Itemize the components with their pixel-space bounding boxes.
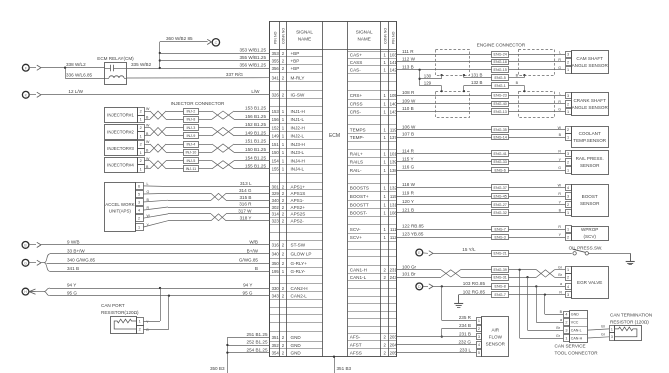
svg-text:318 Y: 318 Y bbox=[240, 215, 252, 220]
svg-text:GND: GND bbox=[291, 335, 302, 340]
svg-text:SIGNAL: SIGNAL bbox=[356, 30, 373, 35]
svg-text:ENG-45: ENG-45 bbox=[494, 194, 507, 198]
svg-text:355: 355 bbox=[272, 58, 280, 63]
svg-text:R: R bbox=[558, 150, 561, 154]
svg-text:INJ-10: INJ-10 bbox=[185, 151, 196, 155]
svg-text:W/B: W/B bbox=[249, 240, 258, 245]
svg-text:ENG-8: ENG-8 bbox=[495, 285, 506, 289]
svg-text:B: B bbox=[255, 266, 258, 271]
svg-text:1: 1 bbox=[565, 336, 567, 340]
svg-text:302: 302 bbox=[272, 205, 280, 210]
svg-text:ENG-35: ENG-35 bbox=[494, 128, 507, 132]
svg-text:CAN-H: CAN-H bbox=[571, 336, 583, 340]
svg-text:129: 129 bbox=[424, 81, 432, 86]
svg-text:112: 112 bbox=[390, 235, 397, 240]
svg-text:2: 2 bbox=[140, 143, 142, 147]
svg-text:2: 2 bbox=[567, 60, 569, 64]
svg-text:354: 354 bbox=[272, 350, 280, 355]
svg-text:RESISTOR(120Ω): RESISTOR(120Ω) bbox=[101, 310, 139, 315]
svg-text:ECM RELAY(CM): ECM RELAY(CM) bbox=[97, 56, 134, 61]
svg-text:COOLANT: COOLANT bbox=[579, 131, 601, 136]
svg-text:CRSS: CRSS bbox=[350, 102, 363, 107]
svg-text:ENG-7: ENG-7 bbox=[495, 293, 506, 297]
svg-text:RAIL PRESS.: RAIL PRESS. bbox=[576, 156, 604, 161]
svg-text:G: G bbox=[147, 190, 150, 194]
svg-text:GND: GND bbox=[571, 313, 579, 317]
svg-text:155: 155 bbox=[272, 167, 280, 172]
svg-text:BOOST: BOOST bbox=[582, 194, 598, 199]
svg-text:CAN1-L: CAN1-L bbox=[350, 275, 367, 280]
svg-text:+BP: +BP bbox=[291, 66, 300, 71]
svg-text:115: 115 bbox=[390, 194, 397, 199]
svg-text:1: 1 bbox=[138, 226, 140, 230]
svg-text:+BP: +BP bbox=[291, 58, 300, 63]
svg-text:INJECTOR#2: INJECTOR#2 bbox=[107, 129, 134, 134]
svg-text:ENG-6: ENG-6 bbox=[495, 168, 506, 172]
svg-text:W: W bbox=[146, 140, 150, 144]
svg-text:2: 2 bbox=[140, 110, 142, 114]
svg-text:INJECTOR#1: INJECTOR#1 bbox=[107, 113, 134, 118]
svg-text:APS1S: APS1S bbox=[291, 191, 306, 196]
svg-text:3: 3 bbox=[565, 329, 567, 333]
svg-text:R: R bbox=[558, 192, 561, 196]
svg-text:ACCEL WORK: ACCEL WORK bbox=[105, 202, 134, 207]
svg-text:CAN1-H: CAN1-H bbox=[350, 268, 367, 273]
svg-text:156: 156 bbox=[272, 117, 280, 122]
svg-text:156 B1.25: 156 B1.25 bbox=[245, 114, 266, 119]
svg-text:130: 130 bbox=[424, 74, 432, 79]
svg-text:INJECTOR CONNECTOR: INJECTOR CONNECTOR bbox=[171, 101, 225, 106]
svg-text:316 R: 316 R bbox=[239, 202, 252, 207]
svg-text:RAIL+: RAIL+ bbox=[350, 151, 363, 156]
svg-text:INJ3-H: INJ3-H bbox=[291, 142, 305, 147]
svg-text:231 B: 231 B bbox=[459, 331, 471, 336]
svg-text:149 B1.25: 149 B1.25 bbox=[245, 131, 266, 136]
svg-text:W: W bbox=[558, 184, 562, 188]
svg-text:153: 153 bbox=[272, 109, 280, 114]
svg-text:SCV+: SCV+ bbox=[350, 235, 362, 240]
svg-text:G: G bbox=[558, 108, 561, 112]
svg-text:2: 2 bbox=[139, 327, 141, 331]
svg-text:1: 1 bbox=[567, 110, 569, 114]
svg-text:BOOST+: BOOST+ bbox=[350, 194, 369, 199]
svg-text:2: 2 bbox=[565, 321, 567, 325]
svg-text:SCV-: SCV- bbox=[350, 227, 361, 232]
svg-text:341: 341 bbox=[272, 75, 280, 80]
svg-text:4: 4 bbox=[567, 186, 569, 190]
svg-text:2: 2 bbox=[140, 159, 142, 163]
svg-text:AFS-: AFS- bbox=[350, 334, 361, 339]
svg-text:4: 4 bbox=[565, 313, 567, 317]
svg-text:ANGLE SENSOR: ANGLE SENSOR bbox=[572, 105, 609, 110]
svg-text:95 G: 95 G bbox=[243, 290, 253, 295]
svg-text:M-RLY: M-RLY bbox=[291, 75, 305, 80]
svg-text:1: 1 bbox=[567, 68, 569, 72]
svg-text:139: 139 bbox=[390, 160, 398, 165]
svg-text:BOOST-: BOOST- bbox=[350, 211, 368, 216]
svg-text:1: 1 bbox=[139, 319, 141, 323]
svg-text:SENSOR: SENSOR bbox=[580, 163, 600, 168]
svg-text:101: 101 bbox=[390, 151, 398, 156]
svg-text:SENSOR: SENSOR bbox=[486, 342, 506, 347]
svg-text:CASS: CASS bbox=[350, 60, 363, 65]
svg-text:ENG-13: ENG-13 bbox=[494, 110, 507, 114]
svg-text:326: 326 bbox=[272, 92, 280, 97]
svg-text:115 Y: 115 Y bbox=[402, 157, 414, 162]
svg-text:ENG-3: ENG-3 bbox=[495, 235, 506, 239]
svg-text:RAILS: RAILS bbox=[350, 160, 363, 165]
svg-text:ENG-31: ENG-31 bbox=[494, 275, 507, 279]
svg-text:195: 195 bbox=[272, 269, 280, 274]
svg-text:ENG-41: ENG-41 bbox=[494, 152, 507, 156]
svg-text:254 B1.25: 254 B1.25 bbox=[247, 347, 268, 352]
svg-text:INJ-5: INJ-5 bbox=[186, 159, 195, 163]
svg-text:151: 151 bbox=[272, 142, 280, 147]
svg-text:W: W bbox=[147, 214, 151, 218]
svg-text:CRS-: CRS- bbox=[350, 109, 362, 114]
svg-text:INJECTOR#3: INJECTOR#3 bbox=[107, 146, 134, 151]
svg-text:CONN NO: CONN NO bbox=[383, 28, 387, 44]
svg-text:138: 138 bbox=[390, 168, 398, 173]
svg-text:114 R: 114 R bbox=[402, 148, 415, 153]
svg-text:251 B1.25: 251 B1.25 bbox=[247, 332, 268, 337]
svg-text:314 G: 314 G bbox=[239, 188, 252, 193]
svg-text:316: 316 bbox=[272, 243, 280, 248]
svg-text:143: 143 bbox=[390, 109, 398, 114]
svg-text:94 Y: 94 Y bbox=[67, 283, 76, 288]
svg-text:123 YB.85: 123 YB.85 bbox=[402, 232, 424, 237]
svg-text:INJ-11: INJ-11 bbox=[186, 167, 197, 171]
svg-text:235 R: 235 R bbox=[459, 315, 472, 320]
svg-text:WPROP: WPROP bbox=[581, 227, 598, 232]
svg-text:142: 142 bbox=[390, 68, 398, 73]
svg-text:W: W bbox=[146, 124, 150, 128]
svg-text:RAIL-: RAIL- bbox=[350, 168, 362, 173]
svg-text:UNIT(APS): UNIT(APS) bbox=[109, 209, 131, 214]
svg-text:a: a bbox=[560, 318, 562, 322]
svg-text:1: 1 bbox=[611, 327, 613, 331]
svg-text:ENG-1: ENG-1 bbox=[495, 84, 506, 88]
svg-text:119: 119 bbox=[390, 128, 397, 133]
svg-text:INJ-3: INJ-3 bbox=[186, 126, 195, 130]
svg-text:338 W/L2: 338 W/L2 bbox=[66, 62, 86, 67]
svg-text:109 W: 109 W bbox=[402, 99, 416, 104]
svg-text:CAS-: CAS- bbox=[350, 68, 361, 73]
svg-text:APS2-: APS2- bbox=[291, 219, 305, 224]
svg-text:TEMPS: TEMPS bbox=[350, 128, 366, 133]
svg-text:1: 1 bbox=[567, 211, 569, 215]
svg-text:131: 131 bbox=[390, 202, 398, 207]
svg-text:ENG-21: ENG-21 bbox=[494, 252, 507, 256]
svg-text:INJ2-H: INJ2-H bbox=[291, 125, 305, 130]
svg-text:95 G: 95 G bbox=[67, 290, 77, 295]
svg-text:B+/W: B+/W bbox=[247, 249, 259, 254]
svg-text:132: 132 bbox=[390, 185, 398, 190]
svg-text:140: 140 bbox=[390, 102, 398, 107]
svg-text:107 B: 107 B bbox=[402, 132, 414, 137]
svg-text:122 RB.85: 122 RB.85 bbox=[402, 224, 424, 229]
svg-text:152: 152 bbox=[272, 125, 280, 130]
svg-text:105: 105 bbox=[390, 93, 398, 98]
svg-text:BOOSTS: BOOSTS bbox=[350, 185, 369, 190]
svg-text:352: 352 bbox=[272, 343, 280, 348]
svg-text:ENG-14: ENG-14 bbox=[494, 135, 507, 139]
svg-text:NAME: NAME bbox=[298, 37, 311, 42]
svg-text:108: 108 bbox=[390, 211, 398, 216]
svg-text:243: 243 bbox=[390, 275, 398, 280]
svg-text:343: 343 bbox=[272, 294, 280, 299]
svg-text:351 B3: 351 B3 bbox=[337, 366, 352, 371]
svg-text:3: 3 bbox=[138, 201, 140, 205]
svg-text:150 B1.25: 150 B1.25 bbox=[245, 147, 266, 152]
svg-text:323: 323 bbox=[272, 219, 280, 224]
svg-text:INJ2-L: INJ2-L bbox=[291, 134, 305, 139]
svg-text:PIN NO: PIN NO bbox=[273, 31, 277, 44]
svg-text:TEMP.SENSOR: TEMP.SENSOR bbox=[573, 138, 607, 143]
svg-text:(SCV): (SCV) bbox=[583, 234, 596, 239]
svg-text:353: 353 bbox=[272, 51, 280, 56]
svg-text:G: G bbox=[558, 66, 561, 70]
svg-text:131 B: 131 B bbox=[471, 72, 483, 77]
svg-text:353 W/B1.25: 353 W/B1.25 bbox=[239, 47, 266, 52]
svg-text:33 B+/W: 33 B+/W bbox=[67, 249, 85, 254]
svg-text:2: 2 bbox=[567, 160, 569, 164]
svg-text:231: 231 bbox=[390, 268, 398, 273]
svg-text:2: 2 bbox=[478, 327, 480, 331]
svg-text:336 W/L6.85: 336 W/L6.85 bbox=[66, 73, 92, 78]
svg-text:2: 2 bbox=[567, 203, 569, 207]
svg-text:CAN PORT: CAN PORT bbox=[101, 303, 125, 308]
svg-text:INJ4-L: INJ4-L bbox=[291, 167, 305, 172]
svg-text:1: 1 bbox=[567, 135, 569, 139]
svg-text:350: 350 bbox=[272, 261, 280, 266]
svg-text:120 Y: 120 Y bbox=[402, 199, 414, 204]
svg-text:APS2+: APS2+ bbox=[291, 205, 306, 210]
svg-text:ECM: ECM bbox=[329, 133, 340, 139]
svg-text:5: 5 bbox=[478, 351, 480, 355]
svg-text:3: 3 bbox=[478, 335, 480, 339]
svg-text:118 W: 118 W bbox=[402, 182, 416, 187]
svg-text:INJ1-H: INJ1-H bbox=[291, 109, 305, 114]
svg-text:SENSOR: SENSOR bbox=[580, 201, 600, 206]
svg-text:INJ-9: INJ-9 bbox=[186, 134, 195, 138]
svg-text:TOOL CONNECTOR: TOOL CONNECTOR bbox=[555, 351, 599, 356]
svg-text:15 Y/L: 15 Y/L bbox=[462, 247, 476, 252]
svg-text:L: L bbox=[559, 50, 561, 54]
svg-text:232 G: 232 G bbox=[458, 340, 471, 345]
svg-text:340: 340 bbox=[272, 198, 280, 203]
svg-text:234 B: 234 B bbox=[459, 323, 471, 328]
svg-text:ENG-18: ENG-18 bbox=[494, 60, 507, 64]
svg-text:CAM SHAFT: CAM SHAFT bbox=[576, 56, 603, 61]
svg-text:150: 150 bbox=[272, 150, 280, 155]
svg-text:119 R: 119 R bbox=[402, 191, 415, 196]
svg-text:2: 2 bbox=[567, 128, 569, 132]
svg-text:CONN NO: CONN NO bbox=[282, 28, 286, 44]
svg-text:1: 1 bbox=[140, 134, 142, 138]
svg-text:149: 149 bbox=[272, 134, 280, 139]
svg-text:L: L bbox=[559, 91, 561, 95]
svg-text:INJ-4: INJ-4 bbox=[186, 142, 195, 146]
svg-text:100 Gr: 100 Gr bbox=[402, 265, 417, 270]
svg-text:340: 340 bbox=[272, 252, 280, 257]
svg-text:G/WG.85: G/WG.85 bbox=[239, 258, 259, 263]
svg-text:106 W: 106 W bbox=[402, 125, 416, 130]
svg-text:R: R bbox=[559, 290, 562, 294]
svg-text:R: R bbox=[558, 58, 561, 62]
svg-text:356: 356 bbox=[272, 66, 280, 71]
svg-text:IG-SW: IG-SW bbox=[291, 92, 305, 97]
svg-text:1: 1 bbox=[140, 167, 142, 171]
svg-text:111: 111 bbox=[390, 227, 397, 232]
svg-text:NAME: NAME bbox=[358, 37, 371, 42]
svg-text:ENG-40: ENG-40 bbox=[494, 102, 507, 106]
svg-text:340 G/WG.85: 340 G/WG.85 bbox=[67, 258, 96, 263]
svg-text:GND: GND bbox=[291, 350, 302, 355]
svg-text:INJECTOR#4: INJECTOR#4 bbox=[107, 162, 134, 167]
svg-text:ENG-32: ENG-32 bbox=[494, 211, 507, 215]
svg-text:AFST: AFST bbox=[350, 343, 362, 348]
svg-text:INJ3-L: INJ3-L bbox=[291, 150, 305, 155]
svg-text:301: 301 bbox=[272, 184, 280, 189]
svg-text:3: 3 bbox=[567, 293, 569, 297]
svg-text:ENG-7: ENG-7 bbox=[495, 227, 506, 231]
svg-text:4: 4 bbox=[138, 209, 140, 213]
svg-text:ENG-37: ENG-37 bbox=[494, 186, 507, 190]
svg-text:252 B1.25: 252 B1.25 bbox=[247, 340, 268, 345]
svg-text:2: 2 bbox=[567, 102, 569, 106]
svg-text:132 B: 132 B bbox=[471, 80, 483, 85]
svg-text:INJ1-L: INJ1-L bbox=[291, 117, 305, 122]
svg-text:CAN2-L: CAN2-L bbox=[291, 294, 308, 299]
svg-text:ENG-27: ENG-27 bbox=[494, 203, 507, 207]
svg-text:154: 154 bbox=[272, 159, 280, 164]
svg-text:GLOW LP: GLOW LP bbox=[291, 252, 312, 257]
svg-text:CAN SERVICE: CAN SERVICE bbox=[555, 344, 586, 349]
svg-text:5: 5 bbox=[138, 193, 140, 197]
svg-text:W: W bbox=[146, 157, 150, 161]
svg-text:101 Br: 101 Br bbox=[402, 272, 416, 277]
svg-text:108 R: 108 R bbox=[402, 90, 415, 95]
svg-text:APS1-: APS1- bbox=[291, 198, 305, 203]
svg-text:R: R bbox=[558, 225, 561, 229]
svg-text:3: 3 bbox=[567, 152, 569, 156]
svg-text:C: C bbox=[215, 41, 218, 45]
svg-text:D: D bbox=[418, 285, 421, 289]
svg-text:103 RG.85: 103 RG.85 bbox=[463, 281, 486, 286]
svg-text:113 B: 113 B bbox=[402, 65, 414, 70]
svg-text:103: 103 bbox=[390, 52, 398, 57]
svg-text:351: 351 bbox=[272, 335, 280, 340]
svg-text:141: 141 bbox=[390, 60, 398, 65]
svg-text:111 R: 111 R bbox=[402, 49, 414, 54]
svg-text:341 B: 341 B bbox=[67, 266, 79, 271]
svg-text:ENGINE CONNECTOR: ENGINE CONNECTOR bbox=[477, 43, 526, 48]
svg-text:329: 329 bbox=[272, 191, 280, 196]
svg-text:R: R bbox=[558, 100, 561, 104]
svg-text:1: 1 bbox=[140, 151, 142, 155]
svg-text:112 W: 112 W bbox=[402, 57, 416, 62]
svg-text:H: H bbox=[24, 290, 27, 294]
svg-text:RESISTOR (120Ω): RESISTOR (120Ω) bbox=[610, 319, 649, 324]
svg-text:152 B1.25: 152 B1.25 bbox=[245, 122, 266, 127]
svg-text:94 Y: 94 Y bbox=[243, 283, 252, 288]
svg-text:EGR VALVE: EGR VALVE bbox=[577, 280, 602, 285]
svg-text:TEMP-: TEMP- bbox=[350, 135, 365, 140]
svg-text:INJ4-H: INJ4-H bbox=[291, 159, 305, 164]
svg-text:ENG-23: ENG-23 bbox=[494, 94, 507, 98]
svg-text:337 R/G: 337 R/G bbox=[226, 72, 244, 77]
svg-text:L/W: L/W bbox=[251, 89, 260, 94]
svg-text:356 W/B1.25: 356 W/B1.25 bbox=[239, 62, 266, 67]
svg-text:2: 2 bbox=[567, 276, 569, 280]
svg-text:313 L: 313 L bbox=[240, 181, 252, 186]
svg-text:CAS+: CAS+ bbox=[350, 52, 362, 57]
svg-text:2: 2 bbox=[567, 235, 569, 239]
svg-text:R: R bbox=[147, 206, 150, 210]
svg-text:AIR: AIR bbox=[491, 328, 499, 333]
svg-text:3: 3 bbox=[611, 335, 613, 339]
svg-text:W: W bbox=[146, 107, 150, 111]
svg-text:137: 137 bbox=[390, 135, 398, 140]
svg-text:APS2S: APS2S bbox=[291, 212, 306, 217]
svg-text:4: 4 bbox=[567, 285, 569, 289]
svg-text:a: a bbox=[560, 282, 562, 286]
svg-text:204: 204 bbox=[390, 343, 398, 348]
svg-text:3: 3 bbox=[567, 94, 569, 98]
svg-text:1: 1 bbox=[478, 319, 480, 323]
svg-text:G-RLY+: G-RLY+ bbox=[291, 261, 308, 266]
svg-text:VCC: VCC bbox=[571, 321, 579, 325]
svg-text:CRANK SHAFT: CRANK SHAFT bbox=[573, 98, 606, 103]
svg-text:FLOW: FLOW bbox=[489, 335, 503, 340]
svg-text:3: 3 bbox=[567, 53, 569, 57]
svg-text:+BP: +BP bbox=[291, 51, 300, 56]
svg-text:ANGLE SENSOR: ANGLE SENSOR bbox=[572, 63, 609, 68]
svg-text:ENG-33: ENG-33 bbox=[494, 160, 507, 164]
svg-text:CAN2-H: CAN2-H bbox=[291, 286, 308, 291]
svg-text:110 B: 110 B bbox=[402, 106, 414, 111]
svg-text:PIN NO: PIN NO bbox=[391, 31, 395, 44]
svg-text:121 B: 121 B bbox=[402, 207, 414, 212]
svg-text:1: 1 bbox=[140, 118, 142, 122]
svg-text:G-RLY-: G-RLY- bbox=[291, 269, 306, 274]
svg-text:L: L bbox=[147, 182, 149, 186]
svg-text:BOOSTT: BOOSTT bbox=[350, 202, 369, 207]
svg-text:1: 1 bbox=[567, 268, 569, 272]
svg-text:SIGNAL: SIGNAL bbox=[296, 30, 313, 35]
svg-text:G: G bbox=[24, 261, 27, 265]
svg-text:155 B1.25: 155 B1.25 bbox=[245, 164, 266, 169]
svg-text:151 B1.25: 151 B1.25 bbox=[245, 139, 266, 144]
svg-text:6: 6 bbox=[138, 184, 140, 188]
svg-text:116 G: 116 G bbox=[402, 165, 415, 170]
svg-text:12 L/W: 12 L/W bbox=[68, 89, 83, 94]
svg-text:1: 1 bbox=[567, 227, 569, 231]
svg-text:9 W/B: 9 W/B bbox=[67, 240, 80, 245]
svg-text:330: 330 bbox=[272, 286, 280, 291]
svg-text:INJ-8: INJ-8 bbox=[186, 118, 195, 122]
svg-text:G: G bbox=[146, 328, 149, 332]
svg-text:154 B1.25: 154 B1.25 bbox=[245, 155, 266, 160]
svg-text:1: 1 bbox=[567, 168, 569, 172]
svg-text:ST-SW: ST-SW bbox=[291, 243, 306, 248]
svg-text:3: 3 bbox=[567, 194, 569, 198]
svg-text:CAN-L: CAN-L bbox=[571, 329, 582, 333]
svg-text:AFSS: AFSS bbox=[350, 351, 362, 356]
svg-text:CAN TERMINATION: CAN TERMINATION bbox=[610, 312, 652, 317]
svg-text:ENG-39: ENG-39 bbox=[494, 268, 507, 272]
